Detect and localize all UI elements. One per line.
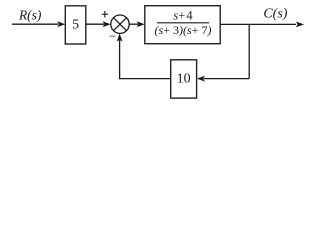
wire feedback left: [120, 78, 171, 80]
arrowhead into plant: [137, 21, 145, 27]
wire output: [220, 23, 296, 25]
svg-text:C(s): C(s): [263, 6, 287, 21]
block gain 5: [65, 6, 86, 44]
arrowhead into summer: [103, 21, 111, 27]
svg-text:R(s): R(s): [18, 7, 42, 22]
svg-text:s+4: s+4: [173, 9, 193, 23]
summing junction: [111, 15, 129, 33]
sign minus: [110, 35, 116, 37]
arrowhead output: [296, 22, 304, 28]
node pickoff: [248, 24, 250, 78]
block feedback 10: [171, 60, 197, 98]
wire feedback right: [204, 78, 249, 80]
wire feedback up: [119, 39, 121, 79]
arrowhead into block 5: [57, 21, 65, 27]
fraction bar: [157, 22, 209, 24]
sign plus: [102, 11, 108, 17]
block plant G(s): [145, 6, 220, 44]
arrowhead into block 10: [197, 76, 205, 82]
wire input: [12, 23, 58, 25]
svg-text:10: 10: [177, 72, 191, 87]
svg-text:5: 5: [72, 18, 79, 33]
arrowhead into summer bottom: [117, 33, 123, 41]
wire summer to plant: [129, 23, 138, 25]
svg-text:(s+ 3)(s+ 7): (s+ 3)(s+ 7): [155, 23, 212, 37]
wire block5 to summer: [86, 23, 104, 25]
